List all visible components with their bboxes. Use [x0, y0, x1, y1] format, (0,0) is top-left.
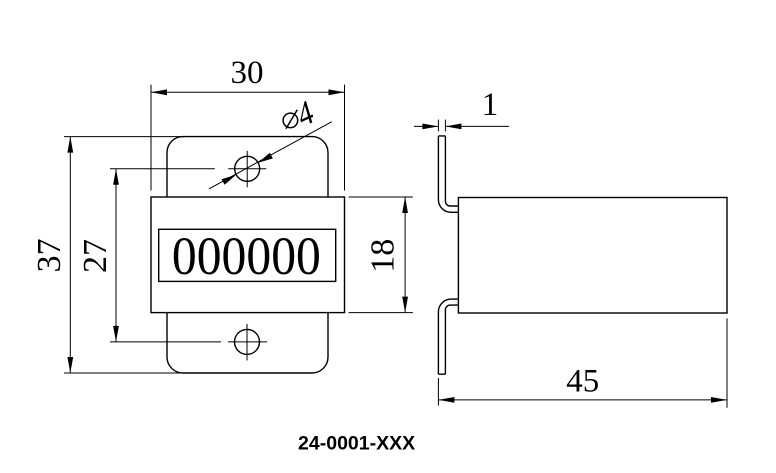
top mounting hole: [235, 156, 260, 181]
svg-text:27: 27: [77, 239, 114, 273]
leader line for hole diameter: [209, 122, 332, 189]
dimension 1: dimension lines: [414, 125, 509, 127]
dimension 18: extension lines: [349, 197, 413, 313]
dimension 18: text: [365, 239, 402, 273]
svg-text:24-0001-XXX: 24-0001-XXX: [298, 433, 415, 455]
dimension 45: dimension line: [438, 399, 727, 401]
dimension 18: dimension line: [404, 197, 406, 313]
dimension 45: extension lines: [438, 318, 727, 407]
dimension 45: text: [566, 364, 599, 400]
bottom mounting hole: [235, 329, 260, 354]
top hole crosshair: [228, 151, 266, 188]
dimension 1: extension ticks: [438, 120, 445, 132]
dimension 37: text: [31, 238, 68, 272]
dimension 18: arrowheads: [402, 197, 408, 313]
front view: mounting flange plate (rounded rect): [167, 137, 328, 373]
label diameter 4: digit 4: [293, 92, 317, 134]
dimension 27: text: [77, 239, 114, 273]
side view: bottom bracket tab: [438, 299, 458, 374]
side view: top bracket tab: [438, 136, 458, 212]
svg-text:45: 45: [566, 364, 599, 400]
dimension 27: arrowheads: [113, 169, 119, 342]
dimension 27: dimension line: [115, 169, 117, 342]
dimension 30: dimension line: [151, 91, 345, 93]
side view: counter body: [458, 198, 727, 314]
dimension 37: extension lines: [64, 137, 184, 373]
svg-text:4: 4: [293, 92, 317, 134]
dimension 30: text: [231, 55, 264, 91]
svg-text:18: 18: [365, 239, 402, 273]
digit display 000000: [172, 226, 321, 286]
dimension 1: arrowheads: [422, 124, 461, 130]
dimension 30: arrowheads: [151, 89, 345, 95]
dimension 27: extension lines: [110, 169, 221, 342]
dimension 45: arrowheads: [438, 397, 727, 403]
bottom hole crosshair: [228, 324, 267, 361]
svg-text:1: 1: [482, 87, 499, 123]
svg-text:37: 37: [31, 238, 68, 272]
leader arrowheads: [222, 153, 273, 185]
dimension 30: extension lines: [151, 85, 345, 191]
svg-text:000000: 000000: [172, 226, 321, 286]
label diameter 4: phi symbol: [283, 110, 298, 129]
part number label: [298, 433, 415, 455]
front view: counter body: [151, 197, 345, 313]
dimension 37: dimension line: [69, 137, 71, 373]
dimension 37: arrowheads: [67, 137, 73, 373]
svg-text:30: 30: [231, 55, 264, 91]
front view: digit window frame: [159, 229, 336, 281]
dimension 1: text: [482, 87, 499, 123]
